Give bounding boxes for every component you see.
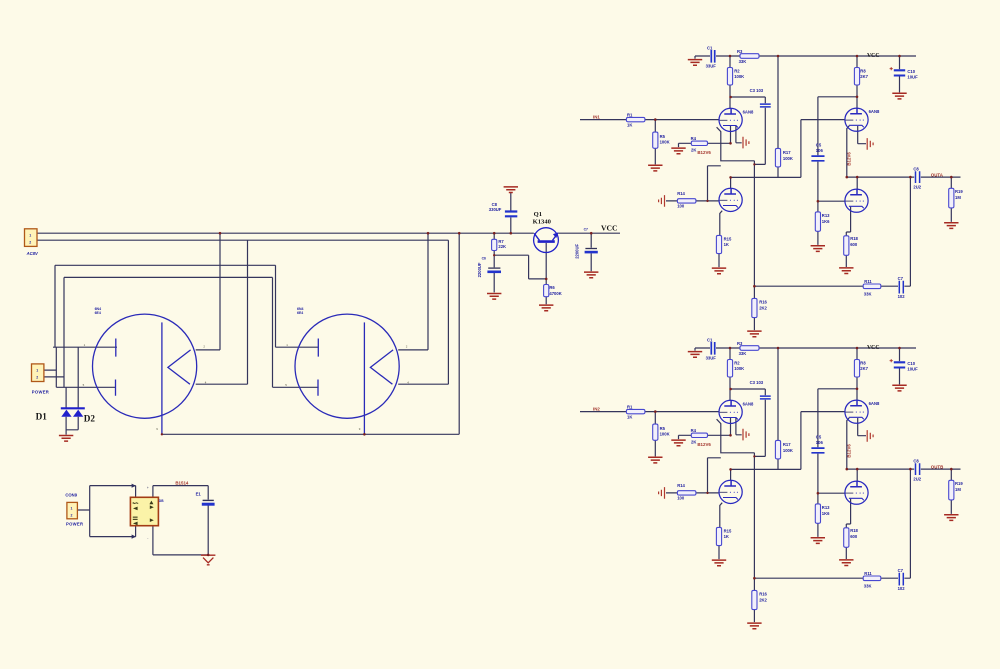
svg-text:R15: R15 xyxy=(724,236,732,241)
svg-text:R13: R13 xyxy=(822,213,830,218)
svg-text:2200UF: 2200UF xyxy=(477,262,482,277)
svg-text:R2: R2 xyxy=(734,69,740,74)
svg-text:C3 103: C3 103 xyxy=(750,88,764,93)
svg-text:6AN8: 6AN8 xyxy=(743,109,754,114)
svg-text:22K: 22K xyxy=(498,244,506,249)
svg-text:100K: 100K xyxy=(660,139,670,144)
svg-text:R16: R16 xyxy=(759,299,767,304)
svg-text:-: - xyxy=(147,536,148,540)
svg-text:VCC: VCC xyxy=(601,224,617,233)
svg-text:1M: 1M xyxy=(955,195,961,200)
svg-text:2K7: 2K7 xyxy=(860,74,868,79)
svg-text:E1: E1 xyxy=(196,492,202,497)
svg-text:OUTA: OUTA xyxy=(931,172,944,177)
svg-text:CON9: CON9 xyxy=(65,493,77,498)
svg-text:C8: C8 xyxy=(913,167,919,172)
svg-text:4700K: 4700K xyxy=(549,291,561,296)
svg-text:2: 2 xyxy=(71,514,73,518)
svg-text:K1340: K1340 xyxy=(533,219,552,226)
svg-text:R5: R5 xyxy=(660,134,666,139)
svg-text:100K: 100K xyxy=(734,74,744,79)
svg-text:C1: C1 xyxy=(707,46,713,51)
svg-text:R4: R4 xyxy=(691,136,697,141)
svg-text:DB: DB xyxy=(159,499,164,503)
svg-text:R17: R17 xyxy=(783,150,791,155)
svg-text:1K: 1K xyxy=(724,242,729,247)
svg-text:R14: R14 xyxy=(677,191,685,196)
svg-text:Q1: Q1 xyxy=(534,211,542,218)
svg-text:33K: 33K xyxy=(739,59,747,64)
svg-text:33K: 33K xyxy=(864,292,872,297)
svg-text:1: 1 xyxy=(71,507,73,511)
svg-text:6E4: 6E4 xyxy=(297,311,303,315)
svg-text:2U2: 2U2 xyxy=(913,184,921,189)
svg-text:1K6: 1K6 xyxy=(822,219,830,224)
svg-text:33UF: 33UF xyxy=(706,64,717,69)
svg-text:D2: D2 xyxy=(84,413,96,423)
svg-text:2: 2 xyxy=(29,241,31,245)
svg-text:B12V6: B12V6 xyxy=(846,152,851,166)
svg-text:R6: R6 xyxy=(549,285,555,290)
svg-text:+: + xyxy=(147,486,149,490)
svg-text:R19: R19 xyxy=(955,189,963,194)
svg-text:1: 1 xyxy=(29,234,31,238)
svg-text:2200UF: 2200UF xyxy=(575,243,580,258)
svg-text:AC8V: AC8V xyxy=(26,251,39,256)
svg-text:C7: C7 xyxy=(584,227,588,231)
svg-text:1: 1 xyxy=(36,369,38,373)
svg-text:106: 106 xyxy=(816,148,824,153)
svg-text:C7: C7 xyxy=(898,276,904,281)
svg-text:100: 100 xyxy=(677,204,685,209)
svg-text:VCC: VCC xyxy=(867,53,880,59)
svg-text:R1: R1 xyxy=(627,112,633,117)
svg-text:OUTB: OUTB xyxy=(931,464,943,469)
svg-text:10UF: 10UF xyxy=(907,75,918,80)
svg-text:102: 102 xyxy=(898,294,906,299)
svg-text:D1: D1 xyxy=(36,411,48,421)
svg-text:6E4: 6E4 xyxy=(95,311,101,315)
svg-text:IN2: IN2 xyxy=(593,406,600,411)
svg-text:2: 2 xyxy=(36,376,38,380)
svg-text:2K: 2K xyxy=(691,148,696,153)
svg-text:6AN8: 6AN8 xyxy=(869,109,880,114)
svg-text:R18: R18 xyxy=(850,236,858,241)
svg-text:2K2: 2K2 xyxy=(759,305,767,310)
svg-text:C10: C10 xyxy=(907,69,915,74)
svg-text:POWER: POWER xyxy=(66,522,83,527)
svg-text:600: 600 xyxy=(850,242,858,247)
svg-text:B1514: B1514 xyxy=(175,480,188,485)
svg-text:100K: 100K xyxy=(783,156,793,161)
svg-text:R8: R8 xyxy=(860,69,866,74)
svg-text:C5: C5 xyxy=(816,143,822,148)
svg-text:R3: R3 xyxy=(737,49,743,54)
svg-text:1K: 1K xyxy=(627,123,632,128)
svg-text:IN1: IN1 xyxy=(593,114,600,119)
svg-text:C6: C6 xyxy=(482,256,486,260)
svg-text:330UF: 330UF xyxy=(489,207,502,212)
svg-text:B12V6: B12V6 xyxy=(697,150,711,155)
svg-text:POWER: POWER xyxy=(32,389,49,394)
svg-text:R11: R11 xyxy=(864,279,872,284)
